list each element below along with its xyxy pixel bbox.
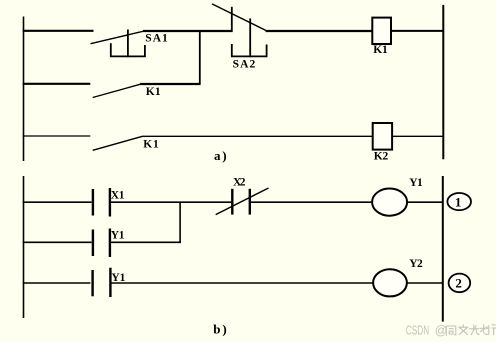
wire rung2 left segment <box>23 83 91 85</box>
svg-text:a): a) <box>214 148 228 163</box>
wire junction vertical (rung1 to rung2) <box>199 30 201 85</box>
svg-text:Y1: Y1 <box>111 272 125 284</box>
svg-text:@: @ <box>435 323 448 337</box>
同 <box>446 326 456 336</box>
svg-text:X1: X1 <box>111 190 125 202</box>
svg-text:1: 1 <box>455 194 462 209</box>
left power bus (circuit b) <box>23 176 25 318</box>
output terminal 1 <box>447 193 471 210</box>
coil Y1 <box>372 189 407 216</box>
文 <box>458 324 468 334</box>
wire rung3 to right bus <box>392 135 443 137</box>
contact X2 (NC) <box>216 188 269 215</box>
svg-text:b): b) <box>213 322 228 337</box>
svg-text:Y1: Y1 <box>111 230 125 242</box>
svg-text:2: 2 <box>455 275 462 290</box>
relay coil K2 <box>373 123 392 150</box>
left power bus (circuit a) <box>23 17 25 162</box>
wire b-rung3 left segment <box>23 282 91 284</box>
龙 <box>469 324 480 335</box>
switch SA1 <box>91 30 146 58</box>
svg-text:K1: K1 <box>143 139 159 151</box>
wire b-rung1 coil to bus <box>407 201 443 203</box>
svg-text:K2: K2 <box>374 151 389 163</box>
watermark CSDN @同文龙老师 <box>406 322 496 337</box>
师 <box>489 325 496 335</box>
svg-text:X2: X2 <box>233 177 246 189</box>
wire b-rung1 to coil <box>250 201 372 203</box>
svg-text:SA2: SA2 <box>233 59 256 71</box>
wire rung3 left segment <box>23 135 91 137</box>
wire b-rung1 mid segment <box>110 201 231 203</box>
right power bus (circuit a) <box>442 5 444 159</box>
coil Y2 <box>373 269 407 296</box>
wire b-rung2 left segment <box>23 241 92 243</box>
switch SA2 <box>212 4 267 57</box>
output terminal 2 <box>449 274 471 293</box>
svg-text:CSDN: CSDN <box>406 322 429 337</box>
wire b-rung2 right segment <box>110 241 181 243</box>
wire rung1 right segment <box>266 30 373 32</box>
relay coil K1 <box>372 18 391 44</box>
wire b-rung3 coil to bus <box>407 282 443 284</box>
svg-text:K1: K1 <box>373 44 388 56</box>
contact Y1 (b-rung2, NO) <box>93 229 110 258</box>
wire rung1 to right bus <box>391 30 443 32</box>
contact X1 (NO) <box>93 188 110 217</box>
contact K1 (rung3 blade) <box>93 136 143 150</box>
svg-text:Y2: Y2 <box>409 258 423 270</box>
svg-text:Y1: Y1 <box>409 177 423 189</box>
svg-text:SA1: SA1 <box>145 32 168 44</box>
svg-text:K1: K1 <box>146 86 161 98</box>
contact K1 (rung2 blade) <box>93 84 141 97</box>
wire b-rung1 left segment <box>23 201 92 203</box>
wire branch vertical (b-rung1 to b-rung2) <box>179 202 181 244</box>
wire b-rung3 mid segment <box>110 282 373 284</box>
wire rung1 mid segment <box>143 30 233 32</box>
wire rung2 right segment <box>140 83 201 85</box>
contact Y1 (b-rung3, NO) <box>93 268 111 297</box>
wire rung1 left segment <box>23 30 94 32</box>
老 <box>480 324 489 334</box>
right power bus (circuit b) <box>442 176 444 322</box>
wire rung3 mid segment <box>142 135 373 137</box>
